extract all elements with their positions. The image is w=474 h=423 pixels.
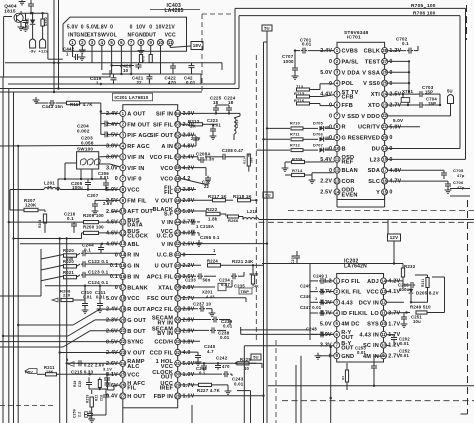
svg-text:0.0V: 0.0V [183,231,195,237]
wire TEST [388,60,411,94]
svg-text:C442: C442 [63,47,75,52]
pin 13 IC201 ABL [106,241,140,248]
pin 12 IC701 BLAN [329,167,358,174]
wire [57,0,59,90]
svg-text:Y: Y [376,190,380,196]
svg-text:35: 35 [175,317,180,322]
wire RAMP [66,239,120,423]
svg-text:10: 10 [123,68,129,73]
svg-text:VCO: VCO [160,166,173,172]
pin 6 IC201 VIF IN [106,165,144,172]
power 5V rail flag [263,192,273,198]
wire bus vertical dashed [255,55,257,342]
svg-text:R266: R266 [228,218,239,223]
svg-text:2.7V: 2.7V [388,353,400,359]
svg-text:C247 0.01: C247 0.01 [300,305,322,310]
svg-text:47p: 47p [457,173,465,178]
svg-text:2.8V: 2.8V [183,285,195,291]
svg-text:H5V: H5V [25,370,33,374]
wire RY out [240,327,334,335]
power 5V xtal [447,88,454,116]
svg-text:5U: 5U [264,26,270,31]
wire [0,70,110,77]
svg-text:1.1V: 1.1V [183,394,195,400]
svg-text:-9v: -9v [30,49,37,54]
svg-text:VIF 0: VIF 0 [127,177,141,183]
shield dashed bottom left [0,405,55,407]
power 5V mid [251,354,261,360]
pin 21 IC201 B OUT [106,328,146,335]
wire G OUT [2,77,120,423]
svg-text:EVEN: EVEN [342,192,358,198]
pin 26 IC201 H AFC FIL [106,381,145,392]
svg-text:23: 23 [382,102,387,107]
svg-text:13: 13 [120,241,125,246]
capacitor C224 [216,95,236,113]
ground pin2 [79,46,86,54]
capacitor C211 [95,286,106,313]
svg-text:ID FILKIL: ID FILKIL [341,311,368,317]
pin 31 IC201 1 HOL VCC [156,359,195,370]
shield step right [450,189,470,197]
svg-text:48: 48 [175,176,180,181]
svg-text:24: 24 [120,361,125,366]
wire AFT [112,210,120,212]
svg-text:5U: 5U [447,88,453,93]
svg-text:5U: 5U [253,355,259,360]
power H5V [25,369,37,375]
svg-text:0.01: 0.01 [83,294,92,299]
capacitor C702 [388,36,418,53]
svg-text:18: 18 [120,296,125,301]
pin 4 IC201 RF AGC [106,143,150,150]
svg-text:5.0V: 5.0V [183,209,195,215]
svg-text:11: 11 [381,332,386,337]
svg-text:0.01: 0.01 [234,382,244,387]
SAW filter SW100 [77,146,120,169]
svg-text:10: 10 [335,146,340,151]
svg-text:0: 0 [329,113,332,119]
resistor R250 [330,346,349,423]
svg-text:0: 0 [115,176,118,182]
svg-text:44: 44 [175,220,180,225]
svg-text:22: 22 [120,339,125,344]
svg-text:4.2V: 4.2V [320,300,332,306]
svg-text:17: 17 [120,285,125,290]
svg-text:0.01: 0.01 [100,175,109,180]
svg-text:C122 0.1: C122 0.1 [88,259,109,264]
pin 11 IC701 OSD REF [320,155,354,166]
svg-text:13: 13 [381,289,386,294]
svg-text:FBP IN: FBP IN [154,394,174,400]
capacitor C208 [205,148,244,160]
capacitor C225 [181,95,240,114]
pin 5 IC701 ST TV CFB [320,90,358,101]
svg-text:OUT: OUT [341,346,354,352]
svg-text:V SSD: V SSD [342,114,360,120]
svg-text:37: 37 [175,296,180,301]
svg-text:3.0V: 3.0V [106,155,118,161]
svg-text:3.7V: 3.7V [320,289,332,295]
svg-text:FM OUT: FM OUT [127,122,150,128]
pin 3 IC403 [86,24,98,45]
pin 12 IC201 BUS CLOCK [106,229,148,240]
svg-text:10: 10 [244,366,250,371]
svg-text:15P: 15P [425,90,433,95]
pin 45 IC201 BLACK S.F [153,207,195,218]
wire SYNC [0,341,120,343]
plug -9v [30,28,37,54]
ground cluster [88,401,106,422]
wire [0,0,1,1]
svg-text:R222: R222 [206,207,218,212]
svg-text:POL: POL [342,81,355,87]
svg-text:40: 40 [175,263,180,268]
svg-text:R249 510: R249 510 [410,305,431,310]
svg-text:VOL: VOL [106,33,117,39]
svg-text:U.C.O: U.C.O [157,233,174,239]
resistor R232 [387,264,416,283]
resistor R220 [232,259,259,289]
svg-text:23: 23 [120,350,125,355]
pin 19 IC201 R OUT [106,306,146,313]
svg-text:CBLK: CBLK [364,49,380,55]
svg-text:54: 54 [175,111,180,116]
svg-text:21V: 21V [165,24,175,30]
svg-text:0: 0 [130,24,133,30]
resistor pin6 pin7 [121,46,131,74]
pin 3 IC701 V DDA [320,69,360,76]
pin 11 IC403 [165,24,176,45]
svg-text:C237 10: C237 10 [193,301,211,306]
resistor R213 [181,119,210,129]
svg-text:0.01: 0.01 [220,335,230,340]
svg-text:0.01: 0.01 [400,341,409,346]
pin 42 IC201 V IN [161,241,194,248]
svg-text:2.3V: 2.3V [106,318,118,324]
pin 34 IC201 SECAM BY IN [152,327,195,338]
pin 37 IC201 FSC OUT [147,295,195,302]
svg-text:1: 1 [66,51,69,56]
svg-text:R224: R224 [207,258,218,263]
pin 17 IC701 SDA [368,167,402,174]
svg-text:R227 4.7K: R227 4.7K [197,388,221,393]
svg-text:16: 16 [382,178,387,183]
svg-text:34: 34 [175,328,180,333]
svg-text:ABL: ABL [127,242,140,248]
svg-text:RY IN: RY IN [157,320,173,326]
resistor R218 [233,194,258,202]
svg-text:0.056: 0.056 [81,140,94,145]
svg-text:DATA: DATA [127,223,143,229]
capacitor C204 [77,121,120,134]
pin 6 IC403 [118,40,124,46]
svg-text:VCC: VCC [367,290,379,296]
svg-text:42: 42 [175,241,180,246]
svg-text:C250: C250 [73,409,77,418]
pin 1 IC403 [67,24,79,45]
pin 11 IC202 LO [371,310,401,317]
svg-text:DU: DU [372,146,381,152]
pin 1 IC701 CVBS [320,48,358,55]
svg-text:C248: C248 [306,327,317,332]
svg-text:L23: L23 [370,157,380,163]
pin 10 IC202 SYS [367,321,400,328]
pin 16 IC701 SLC [368,178,401,185]
svg-text:V IN: V IN [161,220,173,226]
capacitor C202 [387,335,411,346]
svg-text:0.1: 0.1 [67,216,74,221]
capacitor C233 [181,272,244,287]
svg-text:28: 28 [175,393,180,398]
resistor R705 [411,3,436,9]
pin 18 IC201 VCC [106,295,140,302]
resistor under pin8 [139,54,145,63]
svg-text:L202: L202 [235,119,239,128]
svg-text:VIF IN: VIF IN [127,155,144,161]
svg-text:16: 16 [120,274,125,279]
svg-text:XTI: XTI [371,92,381,98]
shield dashed mid [259,210,474,222]
wire bottom right solid [268,385,474,387]
svg-text:VIF IN: VIF IN [127,166,144,172]
pin 2 IC701 PA/SL [329,59,359,66]
svg-text:4.43: 4.43 [341,300,353,306]
svg-text:OUT: OUT [341,335,354,341]
pin 27 IC701 TEST [365,59,393,66]
diode D205 [387,287,439,303]
resistor R715 [294,91,334,98]
svg-text:2.6V: 2.6V [103,201,113,206]
svg-text:U.C.B: U.C.B [157,253,173,259]
svg-text:R705: R705 [411,3,423,9]
svg-text:TBP: TBP [241,289,250,294]
svg-text:AFT OUT: AFT OUT [127,209,153,215]
wire bus y88.5 [0,88,239,90]
wire R706 loop inner [239,16,460,149]
capacitor C237 [181,301,216,316]
pin 33 IC201 CCD/H [154,339,194,346]
svg-text:B: B [342,146,346,152]
svg-text:10u: 10u [413,319,421,324]
resistor R231 [415,275,429,291]
svg-text:4.2V: 4.2V [183,165,195,171]
svg-text:100: 100 [427,3,436,9]
svg-text:G IN: G IN [127,264,139,270]
capacitor C422 bus [102,46,201,75]
pin 6 IC202 R-Y OUT [320,330,354,341]
svg-text:SW: SW [98,33,107,39]
svg-text:12: 12 [120,230,125,235]
svg-text:41: 41 [175,252,180,257]
pin 9 IC701 G [329,135,346,142]
op-amp IC403 LA4285 [63,3,200,52]
svg-text:H OUT: H OUT [127,394,146,400]
capacitor C244 [20,243,120,254]
pin 20 IC701 RESERVED [348,135,393,142]
pin 1 IC201 A OUT [106,110,146,117]
svg-text:C28: C28 [78,380,82,387]
capacitor C241 [181,362,257,375]
wire IC202 bottom [373,374,375,386]
pin 8 IC701 R [329,124,346,131]
svg-text:0: 0 [389,190,392,196]
wire FBP [181,395,265,397]
svg-text:R2: R2 [341,376,345,380]
svg-text:SYS: SYS [367,322,379,328]
capacitor C253 [355,345,387,374]
capacitor C705 [388,168,465,179]
capacitor C238 [291,251,300,264]
svg-text:32: 32 [175,350,180,355]
wire VCO [181,168,206,176]
wire ODD EVEN loop [337,197,385,208]
capacitor C203 [81,113,120,145]
pin 49 IC201 VCO [160,165,194,172]
svg-text:12: 12 [381,300,386,305]
svg-text:SIF FIL: SIF FIL [153,122,174,128]
svg-text:1.7V: 1.7V [183,383,195,389]
pin 11 IC202 4.43 IN [359,331,400,338]
pin 5 IC403 [106,24,117,45]
pin 3 IC202 4.43 [320,299,353,306]
svg-text:0.002: 0.002 [77,128,90,133]
svg-text:26: 26 [120,383,125,388]
svg-text:27: 27 [120,393,125,398]
svg-text:0: 0 [149,24,152,30]
svg-text:XTO: XTO [368,103,380,109]
svg-text:21: 21 [382,124,387,129]
op-amp IC701 ST6V6348 [337,30,385,200]
wire VDDO [388,116,451,123]
resistor R266 [226,214,243,223]
pin 5 IC201 VIF IN [106,154,144,161]
wire SW100 in [65,163,92,179]
svg-text:52: 52 [175,133,180,138]
capacitor C442 [63,46,85,61]
svg-text:470: 470 [168,80,176,85]
svg-text:470: 470 [222,364,230,369]
svg-text:R OUT: R OUT [127,307,146,313]
svg-text:14: 14 [381,278,386,283]
svg-text:1.2: 1.2 [324,279,332,285]
svg-text:2.8V: 2.8V [183,187,195,193]
svg-text:0.01: 0.01 [223,324,233,329]
svg-text:4.8V: 4.8V [183,144,195,150]
pin 15 IC201 G IN [110,263,140,270]
pin 4 IC701 POL [329,80,354,87]
wire 12V rail [387,220,389,235]
svg-text:3.9V: 3.9V [320,332,332,338]
pin 2 IC202 KIL FIL [320,289,362,296]
pin 23 IC201 V OUT [106,350,146,357]
pin 27 IC201 H OUT [106,393,146,400]
power 5V top [262,25,272,423]
pin 16 IC201 B IN [110,273,140,280]
svg-text:XTAL: XTAL [158,285,173,291]
wire R705 loop outer [235,8,466,159]
zener D403 [41,13,48,26]
svg-text:R711: R711 [290,132,300,136]
pin 2 IC403 [76,24,88,45]
svg-text:4.0: 4.0 [183,350,191,356]
svg-text:FIL: FIL [164,190,173,196]
svg-text:47: 47 [175,187,180,192]
svg-text:11: 11 [168,40,173,45]
svg-text:2.4V: 2.4V [106,307,118,313]
svg-text:LA7642N: LA7642N [344,263,367,269]
svg-text:4.0V: 4.0V [106,241,118,247]
svg-text:FM FIL: FM FIL [127,198,147,204]
svg-text:19: 19 [382,146,387,151]
svg-text:31: 31 [175,361,180,366]
resistor R021 G IN [41,259,120,270]
wire VSS0 [388,82,411,84]
svg-text:45: 45 [175,209,180,214]
capacitor C207 [87,193,120,215]
svg-text:4.7: 4.7 [207,349,214,354]
capacitor C208A [181,152,215,163]
pin 13 IC701 COR [320,178,354,185]
pin 8 IC201 VCC [106,187,140,194]
svg-text:5.0V: 5.0V [320,321,332,327]
svg-text:3.1V: 3.1V [103,367,112,372]
pin 7 IC201 VIF 0 [115,176,142,183]
svg-text:24K: 24K [252,285,259,289]
svg-text:R712: R712 [290,143,300,147]
inductor L201 [10,180,120,190]
svg-text:1.5V: 1.5V [106,133,118,139]
svg-text:5.0V: 5.0V [106,187,118,193]
shield dashed bottom [282,400,474,402]
svg-text:0.01: 0.01 [302,42,312,47]
wire BY out [244,346,333,423]
pin 15 IC701 Y [376,189,392,196]
svg-text:KIL FIL: KIL FIL [341,290,362,296]
pin 54 IC201 SIF IN [156,110,195,117]
svg-text:22: 22 [382,113,387,118]
svg-text:D402: D402 [44,17,48,26]
pin 28 IC201 FBP IN [154,393,195,400]
pin 24 IC201 RAMP ALC [106,359,145,370]
svg-text:R225: R225 [240,357,251,362]
svg-text:10V: 10V [156,24,166,30]
svg-text:10: 10 [120,209,125,214]
svg-text:49: 49 [175,165,180,170]
capacitor C242 [215,355,230,369]
svg-text:VCC: VCC [165,33,176,39]
svg-text:3.8V: 3.8V [183,339,195,345]
pin 10 IC202 SC IN [363,342,400,349]
svg-text:APC2 FIL: APC2 FIL [147,307,174,313]
capacitor C239 [181,317,233,329]
svg-text:R200 100: R200 100 [83,224,104,229]
svg-text:3.0V: 3.0V [106,144,118,150]
wire [21,12,63,59]
svg-text:R221 24K: R221 24K [232,259,254,264]
pin 48 IC201 VCO [160,176,190,183]
pin 11 IC201 BUS DATA [106,218,143,229]
resistor R204 [38,214,47,233]
svg-text:5.0V: 5.0V [320,70,332,76]
svg-text:4M DC: 4M DC [341,322,360,328]
svg-text:SW100: SW100 [77,146,93,151]
wire bus y84 [8,83,235,85]
pin 47 IC201 FIL FIL [164,185,195,196]
pin 10 IC403 [156,24,166,45]
svg-text:2.4V: 2.4V [106,111,118,117]
capacitor C248 [306,327,334,338]
